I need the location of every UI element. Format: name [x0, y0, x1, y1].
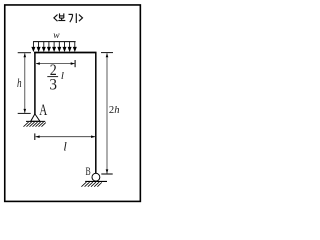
dimension 2h top arrowhead: [106, 53, 109, 57]
fraction bar: [47, 76, 58, 78]
svg-text:B: B: [86, 164, 91, 178]
beam: [34, 52, 96, 54]
dimension l line: [36, 136, 96, 138]
support B roller circle: [92, 173, 100, 181]
support A ground line: [26, 120, 45, 122]
dimension h top tick: [18, 52, 31, 54]
svg-text:w: w: [53, 31, 60, 41]
dimension h line: [24, 53, 26, 113]
dimension 2/3 l line: [36, 63, 74, 65]
right column: [95, 52, 97, 173]
dimension h bottom tick: [18, 112, 31, 114]
dimension 2h bottom tick: [101, 173, 112, 175]
support A hatching: [24, 122, 46, 127]
dimension 2/3 l right arrowhead: [71, 62, 75, 65]
svg-text:l: l: [61, 70, 64, 82]
distributed load arrows: [32, 42, 76, 51]
dimension 2h top tick: [101, 52, 113, 54]
left column: [34, 52, 36, 114]
dimension 2/3 l right tick: [74, 60, 76, 67]
dimension l right arrowhead: [91, 135, 95, 138]
support B hatching: [81, 182, 101, 187]
support B ground line: [85, 180, 107, 182]
dimension 2h bottom arrowhead: [106, 169, 109, 173]
dimension l left tick: [34, 133, 36, 140]
title bracket right: [79, 15, 83, 22]
support A pin triangle: [31, 114, 40, 121]
dimension 2h line: [106, 53, 108, 174]
svg-text:3: 3: [49, 76, 57, 93]
dimension l left arrowhead: [36, 135, 40, 138]
title hangul GI: [69, 13, 77, 23]
svg-text:l: l: [63, 139, 67, 153]
dimension 2/3 l left arrowhead: [36, 62, 40, 65]
svg-text:h: h: [17, 75, 22, 90]
svg-text:2h: 2h: [109, 104, 120, 116]
dimension h bottom arrowhead: [24, 109, 27, 113]
distributed load top line: [33, 41, 76, 43]
dimension h top arrowhead: [24, 53, 27, 57]
title bracket left: [54, 15, 58, 22]
svg-text:A: A: [39, 102, 48, 119]
title hangul BO: [58, 13, 65, 20]
